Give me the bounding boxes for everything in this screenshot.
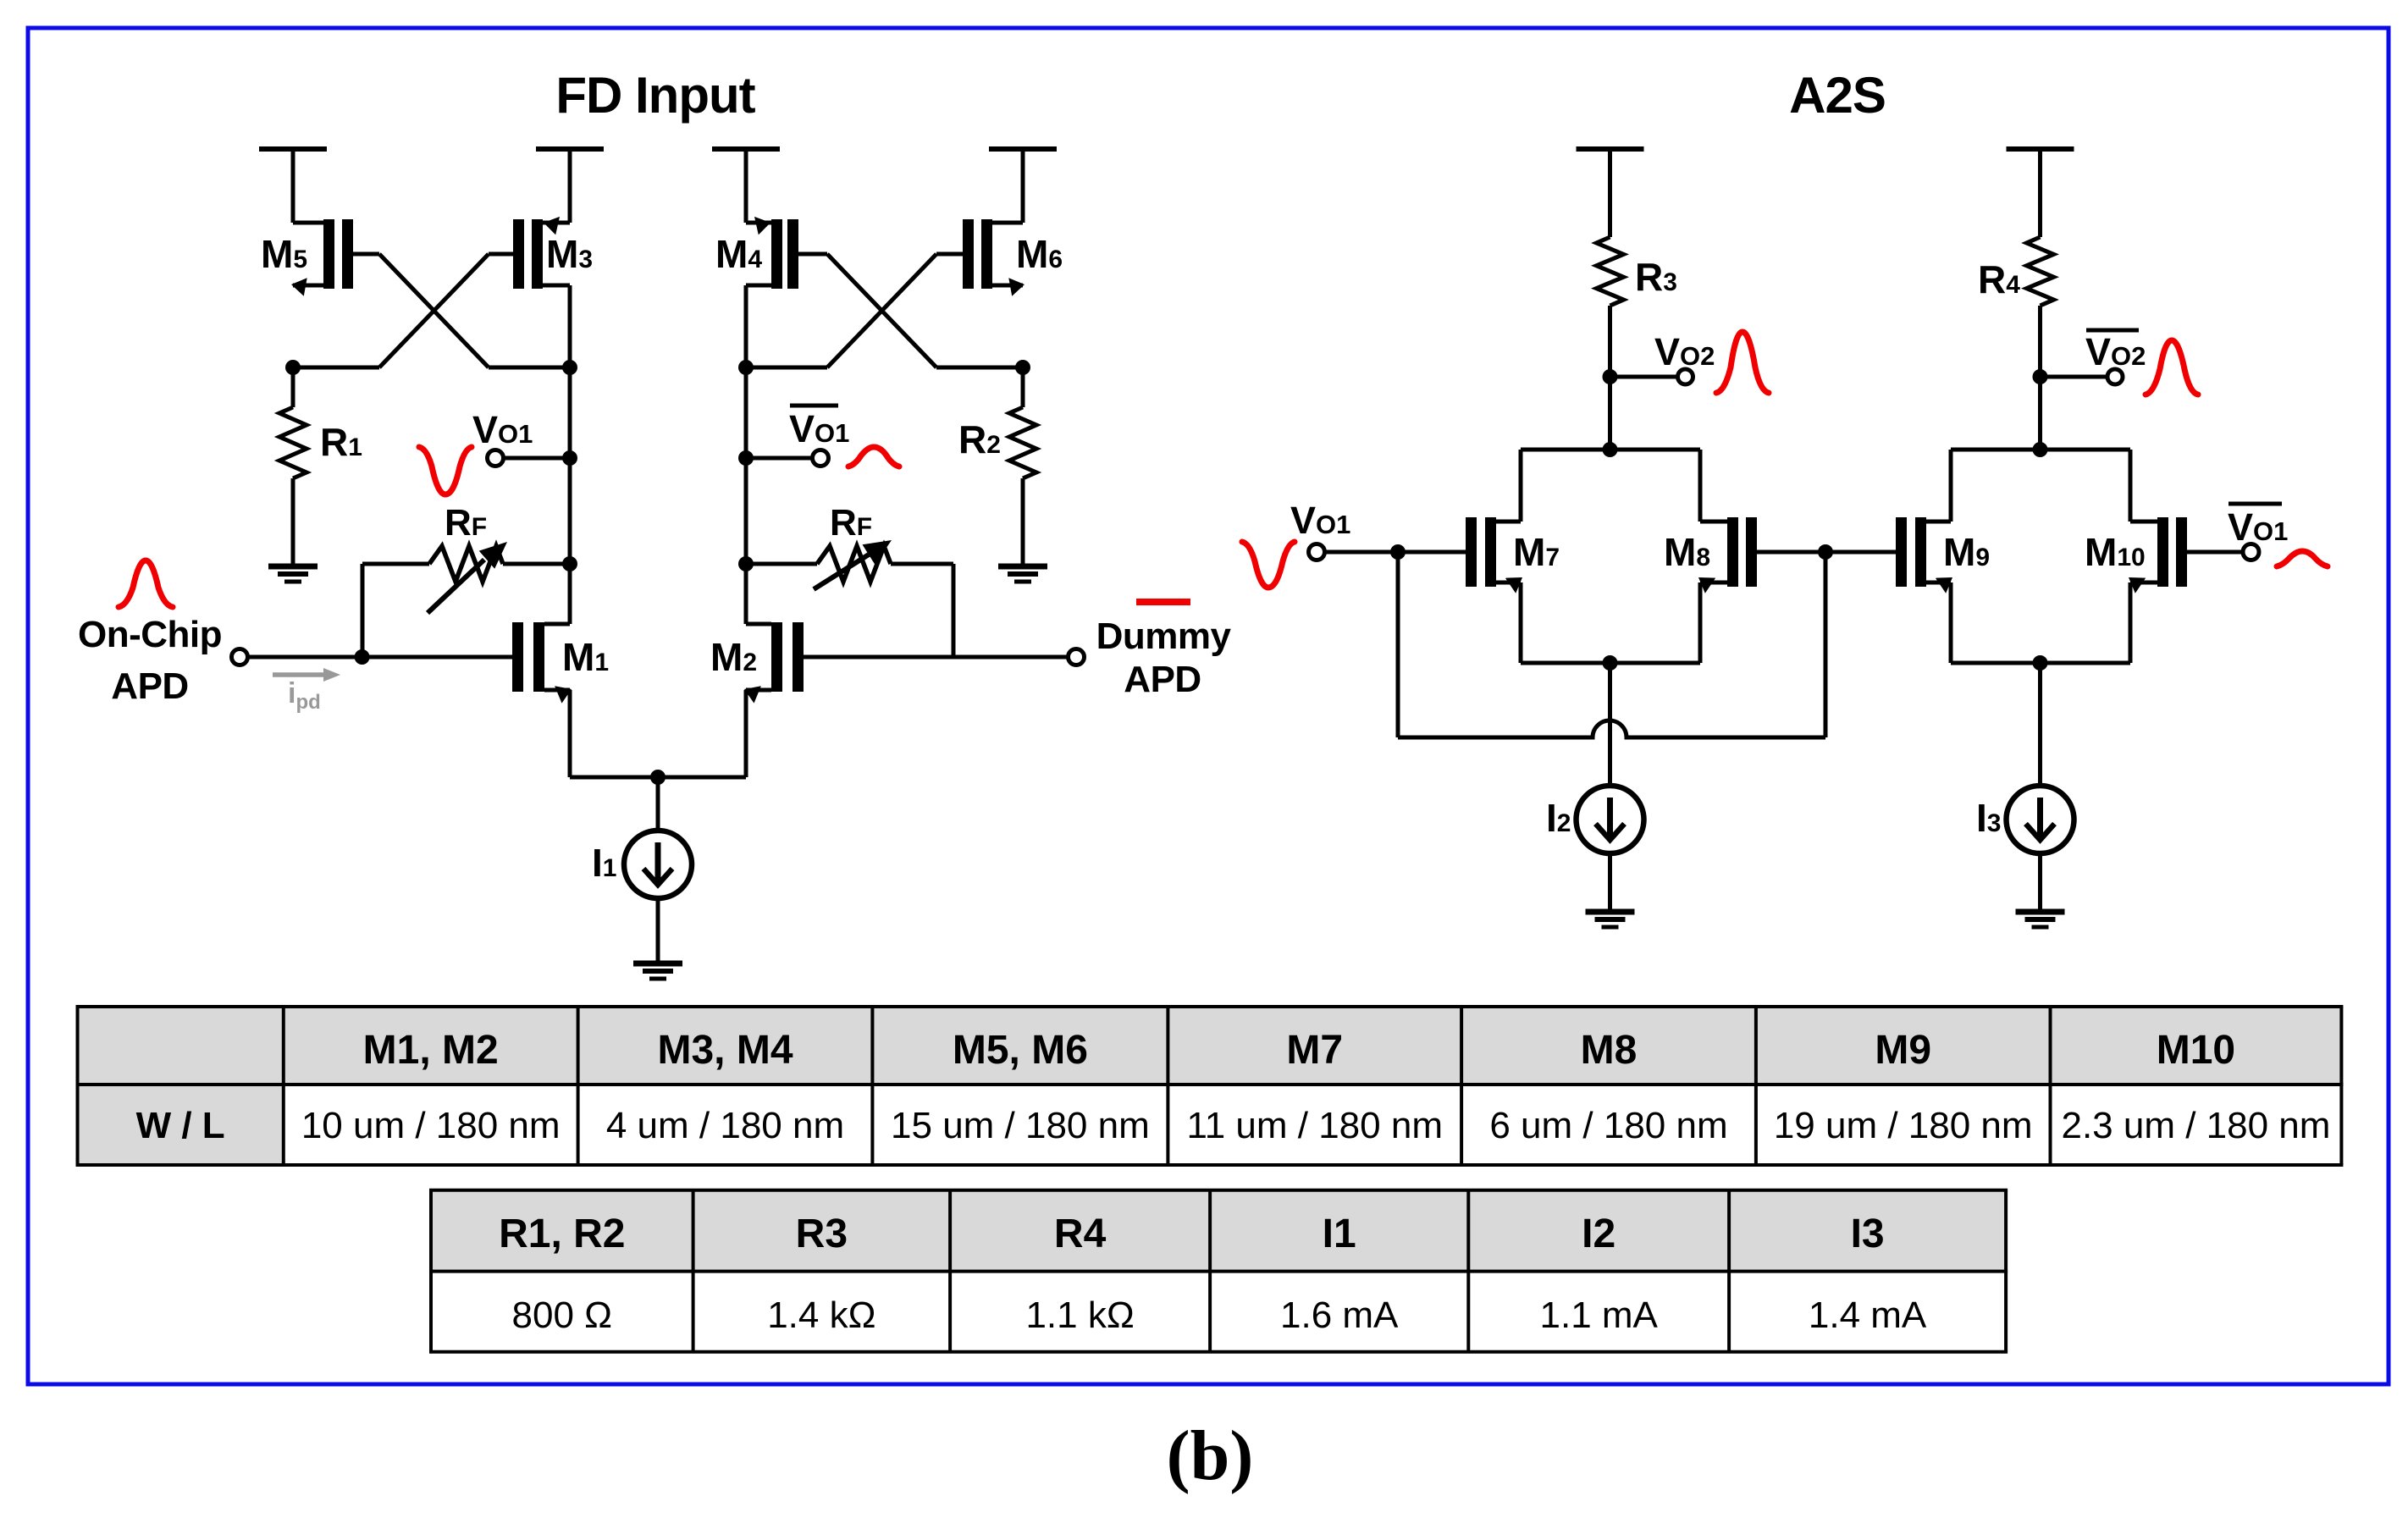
svg-text:15 um / 180 nm: 15 um / 180 nm — [891, 1105, 1150, 1146]
red signal sketch at A2S input (inverted pulse) — [1242, 542, 1295, 588]
resistor R2 — [1009, 407, 1036, 478]
terminal Dummy APD input — [1069, 649, 1085, 665]
svg-text:A2S: A2S — [1789, 67, 1886, 124]
label VO1 (A2S input) — [1290, 499, 1350, 542]
red signal sketch at VO2 (pulse) — [1716, 332, 1769, 393]
resistor R4 — [2027, 237, 2054, 306]
label M4 — [715, 232, 762, 276]
ground below I1 — [633, 963, 682, 979]
wire VDD to M5 source — [291, 149, 295, 223]
label M7 — [1513, 530, 1560, 574]
svg-text:R4: R4 — [1054, 1212, 1107, 1256]
wire I1 to ground — [656, 898, 660, 963]
svg-text:I1: I1 — [1323, 1212, 1356, 1256]
label R2 — [958, 417, 1001, 461]
wire M10 drain — [2129, 450, 2133, 522]
svg-text:M3, M4: M3, M4 — [657, 1028, 793, 1073]
label VO1 — [472, 408, 533, 451]
label M9 — [1943, 530, 1990, 574]
label M6 — [1016, 232, 1063, 276]
label Dummy — [1096, 615, 1232, 657]
terminal VO1bar output — [2243, 544, 2259, 560]
label APD (left) — [111, 665, 188, 707]
node tail junction — [650, 770, 666, 785]
variable resistor RF (left) — [429, 546, 503, 582]
label R1 — [320, 420, 362, 464]
table resistor and current values — [429, 1190, 2008, 1352]
wire input to M1 gate — [248, 655, 362, 660]
red signal sketch at VO1 (inverted pulse) — [419, 447, 472, 494]
wire M7 drain — [1519, 450, 1523, 522]
label A2S title — [1789, 67, 1886, 124]
red signal sketch at A2S output (small pulse) — [2277, 551, 2328, 566]
transistor M1 — [362, 622, 572, 704]
table transistor sizes (W/L) — [76, 1007, 2344, 1165]
wire RF to input node — [361, 564, 365, 657]
wire M9-M10 source bus — [1951, 661, 2130, 665]
svg-text:FD Input: FD Input — [555, 67, 755, 124]
red signal sketch at input (pulse) — [119, 560, 173, 607]
node VO1 gate junction — [1390, 544, 1406, 560]
wire I3 to ground — [2038, 853, 2042, 912]
svg-text:M7: M7 — [1286, 1028, 1343, 1073]
wire RF to dummy input node — [952, 564, 956, 657]
transistor M5 — [291, 219, 379, 296]
svg-text:1.6 mA: 1.6 mA — [1280, 1294, 1399, 1336]
gray arrow ipd — [273, 668, 340, 682]
svg-text:W / L: W / L — [136, 1105, 225, 1146]
wire diagonal to node B — [489, 366, 570, 370]
label I1 — [592, 841, 616, 885]
ground below R1 — [268, 566, 318, 582]
terminal VO1 — [488, 450, 504, 466]
wire node A to R1 — [291, 367, 295, 407]
svg-text:R1, R2: R1, R2 — [499, 1212, 625, 1256]
resistor R3 — [1597, 237, 1624, 306]
terminal VO1bar — [813, 450, 829, 466]
node VO2 junction — [1603, 369, 1618, 384]
wire tail to I1 — [656, 777, 660, 831]
wire source bus to I2 — [1608, 663, 1612, 786]
label VO1bar output — [2228, 505, 2288, 549]
VDD rail above M5 — [259, 146, 327, 152]
label M5 — [261, 232, 307, 276]
red signal sketch at dummy input (flat) — [1136, 599, 1190, 605]
wire RF right lead — [503, 562, 570, 566]
svg-text:1.4 mA: 1.4 mA — [1809, 1294, 1927, 1336]
wire diagonal to node C — [746, 366, 827, 370]
terminal VO1 input of A2S — [1309, 544, 1325, 560]
node source bus junction (left cell) — [1603, 655, 1618, 671]
svg-text:M1, M2: M1, M2 — [363, 1028, 499, 1073]
wire M10 source down — [2129, 582, 2133, 663]
VDD rail above R3 — [1577, 146, 1644, 152]
svg-text:11 um / 180 nm: 11 um / 180 nm — [1187, 1105, 1443, 1146]
node VO1bar junction — [738, 450, 754, 466]
wire VDD to M6 source — [1021, 149, 1025, 223]
svg-text:M8: M8 — [1581, 1028, 1638, 1073]
wire M3 gate to left node (diagonal) — [379, 254, 489, 367]
wire node B down branch — [568, 285, 572, 624]
wire VDD to M4 source — [744, 149, 748, 223]
wire feedback bus with hop — [1398, 720, 1825, 737]
red signal sketch at VO2bar (pulse) — [2146, 340, 2198, 395]
red signal sketch at VO1bar (small pulse) — [848, 447, 899, 466]
label M1 — [562, 635, 609, 679]
svg-text:R3: R3 — [796, 1212, 848, 1256]
wire M8 source down — [1698, 582, 1703, 663]
caption (b) — [1167, 1416, 1254, 1495]
ground below I3 — [2016, 912, 2065, 927]
svg-text:1.1 kΩ: 1.1 kΩ — [1025, 1294, 1134, 1336]
wire dummy input to M2 gate — [953, 655, 1069, 660]
wire node C down branch — [744, 285, 748, 624]
transistor M6 — [936, 219, 1025, 296]
wire diagonal to node A — [293, 366, 379, 370]
current source I2 — [1577, 786, 1644, 853]
node M9-M10 drain bus junction — [2033, 442, 2048, 457]
wire M2 source down — [744, 690, 748, 777]
label On-Chip — [78, 614, 222, 655]
node source bus junction (right cell) — [2033, 655, 2048, 671]
svg-text:I3: I3 — [1851, 1212, 1885, 1256]
wire VDD to M3 source — [568, 149, 572, 223]
VDD rail above M6 — [989, 146, 1057, 152]
svg-text:M5, M6: M5, M6 — [953, 1028, 1088, 1073]
node M7-M8 drain bus junction — [1603, 442, 1618, 457]
current source I3 — [2007, 786, 2074, 853]
wire M9 source down — [1949, 582, 1953, 663]
label ipd — [288, 677, 321, 714]
label M3 — [546, 232, 593, 276]
svg-text:800 Ω: 800 Ω — [512, 1294, 613, 1336]
label FD Input title — [555, 67, 755, 124]
wire node D to R2 — [1021, 367, 1025, 407]
label VO2 — [1654, 330, 1715, 373]
wire VDD to R3 — [1608, 149, 1612, 237]
wire R4 to VO2bar node — [2038, 306, 2042, 450]
terminal On-Chip APD input — [232, 649, 248, 665]
VDD rail above R4 — [2007, 146, 2074, 152]
ground below I2 — [1586, 912, 1635, 927]
label M10 — [2085, 530, 2146, 574]
transistor M10 — [2129, 517, 2243, 593]
wire RF right cell left lead — [746, 562, 817, 566]
transistor M4 — [746, 217, 827, 289]
svg-text:APD: APD — [1124, 659, 1201, 700]
label R3 — [1635, 255, 1677, 299]
label APD (right) — [1124, 659, 1201, 700]
label I2 — [1546, 796, 1571, 840]
transistor M3 — [489, 217, 570, 289]
transistor M9 — [1825, 517, 1952, 593]
ground below R2 — [998, 566, 1047, 582]
svg-text:19 um / 180 nm: 19 um / 180 nm — [1774, 1105, 2033, 1146]
svg-text:1.1 mA: 1.1 mA — [1540, 1294, 1659, 1336]
svg-text:M9: M9 — [1875, 1028, 1931, 1073]
label I3 — [1976, 796, 2001, 840]
wire VO1 node down — [1396, 552, 1400, 737]
current source I1 — [624, 831, 692, 898]
VDD rail above M4 — [712, 146, 780, 152]
transistor M2 — [744, 622, 953, 704]
svg-text:4 um / 180 nm: 4 um / 180 nm — [606, 1105, 844, 1146]
node M8-M9 gate junction — [1818, 544, 1833, 560]
node VO1 junction — [562, 450, 577, 466]
wire M1 source down — [568, 690, 572, 777]
terminal VO2 — [1678, 369, 1693, 384]
wire M7-M8 source bus — [1521, 661, 1700, 665]
wire M5 gate to right node (diagonal) — [379, 254, 489, 367]
wire VO1 to M7 gate — [1325, 550, 1399, 555]
overline of VO1bar output label — [2229, 502, 2282, 506]
svg-text:1.4 kΩ: 1.4 kΩ — [767, 1294, 875, 1336]
VDD rail above M3 — [536, 146, 604, 152]
overline of VO2bar label — [2086, 328, 2139, 333]
arrow of variable resistor RF (left) — [428, 542, 507, 613]
node C junction (M4 drain) — [738, 360, 754, 375]
wire M4 gate to right node (diagonal) — [827, 254, 936, 367]
variable resistor RF (right) — [817, 546, 891, 582]
label M2 — [710, 635, 757, 679]
wire source bus to I3 — [2038, 663, 2042, 786]
node RF-M1 junction — [562, 556, 577, 571]
transistor M8 — [1698, 517, 1825, 593]
wire tail bus — [570, 776, 746, 780]
svg-text:2.3 um / 180 nm: 2.3 um / 180 nm — [2061, 1105, 2330, 1146]
transistor M7 — [1398, 517, 1522, 593]
wire I2 to ground — [1608, 853, 1612, 912]
wire R2 to ground — [1021, 478, 1025, 566]
wire VO2bar tap — [2041, 375, 2108, 379]
wire gate node down — [1824, 552, 1828, 737]
svg-text:APD: APD — [111, 665, 188, 707]
svg-text:I2: I2 — [1582, 1212, 1615, 1256]
wire M6 gate to left node (diagonal) — [827, 254, 936, 367]
node B junction (M3 drain) — [562, 360, 577, 375]
svg-text:10 um / 180 nm: 10 um / 180 nm — [301, 1105, 561, 1146]
label VO1bar — [789, 407, 849, 450]
node VO2bar junction — [2033, 369, 2048, 384]
wire M9 drain — [1949, 450, 1953, 522]
node RF-M2 junction — [738, 556, 754, 571]
wire M7-M8 drain bus — [1521, 448, 1700, 452]
node A junction (M5 drain) — [285, 360, 301, 375]
terminal VO2bar — [2107, 369, 2123, 384]
wire VDD to R4 — [2038, 149, 2042, 237]
wire VO2 tap — [1610, 375, 1678, 379]
wire R1 to ground — [291, 478, 295, 566]
label RF (right) — [830, 502, 872, 544]
node D junction (M6 drain) — [1015, 360, 1030, 375]
svg-text:M10: M10 — [2157, 1028, 2235, 1073]
resistor R1 — [279, 407, 307, 478]
wire VO1bar tap — [746, 456, 813, 461]
wire VO1 tap — [504, 456, 571, 461]
wire RF right cell right lead — [891, 562, 953, 566]
label M8 — [1664, 530, 1710, 574]
overline of VO1bar label — [790, 404, 838, 408]
label RF (left) — [445, 502, 487, 544]
wire M8 drain — [1698, 450, 1703, 522]
label R4 — [1978, 257, 2020, 301]
svg-text:6 um / 180 nm: 6 um / 180 nm — [1489, 1105, 1727, 1146]
wire RF left lead — [362, 562, 429, 566]
wire diagonal to node D — [936, 366, 1023, 370]
svg-text:On-Chip: On-Chip — [78, 614, 222, 655]
arrow of variable resistor RF (right) — [814, 540, 892, 589]
svg-text:(b): (b) — [1167, 1416, 1254, 1495]
label VO2bar — [2085, 330, 2146, 373]
svg-text:Dummy: Dummy — [1096, 615, 1232, 657]
wire M7 source down — [1519, 582, 1523, 663]
wire R3 to VO2 node — [1608, 306, 1612, 450]
wire M9-M10 drain bus — [1951, 448, 2130, 452]
node input junction — [355, 649, 370, 665]
